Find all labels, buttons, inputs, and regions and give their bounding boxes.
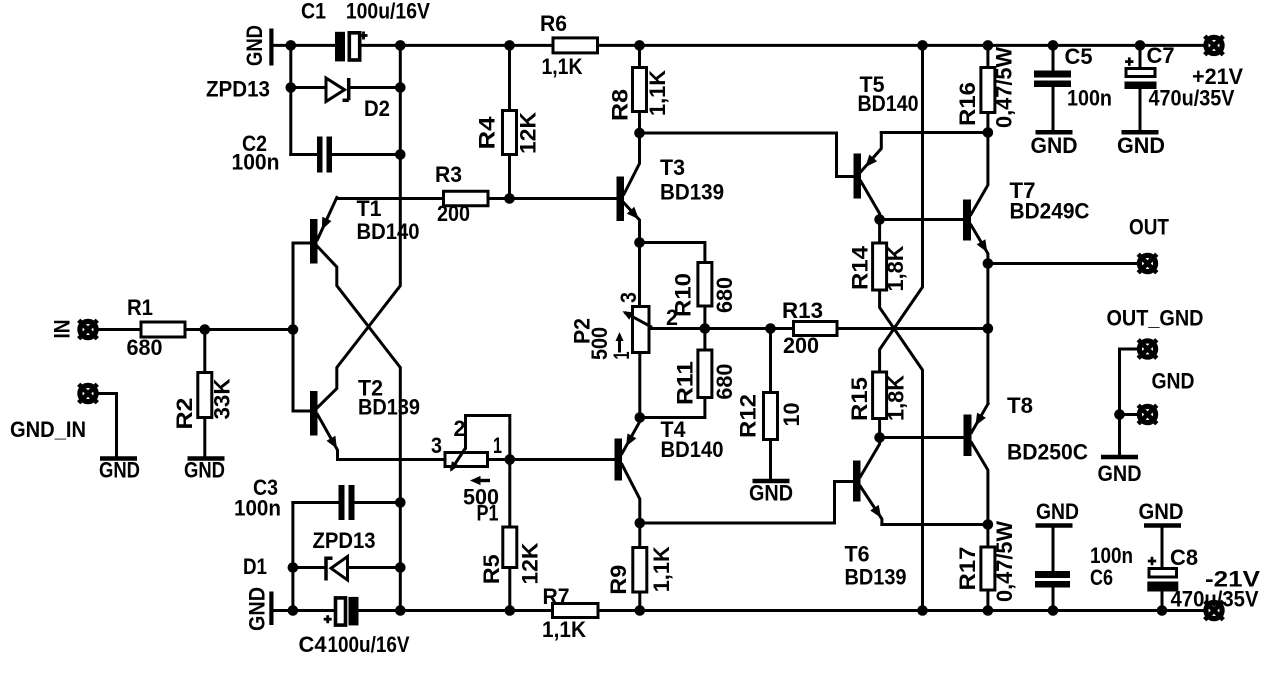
wire [837,327,988,330]
svg-text:100u/16V: 100u/16V [328,632,410,657]
junction [874,214,885,225]
svg-text:680: 680 [712,277,737,313]
wire [291,503,294,611]
junction [288,562,299,573]
svg-text:GND: GND [184,458,225,483]
resistor R3 [444,191,489,206]
svg-text:GND_IN: GND_IN [10,417,86,442]
terminal OUT [1139,255,1155,271]
junction [983,519,994,530]
wire [338,197,444,200]
wire [318,247,401,611]
wire [99,394,117,457]
transistor T3 BD139 [617,177,625,222]
wire [988,262,1137,265]
wire [293,501,339,504]
trimmer P2 500 [638,243,641,307]
svg-text:2: 2 [666,305,678,330]
junction [983,605,994,616]
ground [1144,523,1181,528]
svg-text:R8: R8 [608,89,633,121]
svg-text:0,47/5W: 0,47/5W [992,47,1017,128]
svg-text:100n: 100n [234,496,281,521]
junction [1135,40,1146,51]
wire [274,609,335,612]
svg-text:R11: R11 [672,361,697,405]
terminal GND_IN [80,385,96,401]
svg-text:D2: D2 [364,96,390,121]
svg-text:BD249C: BD249C [1010,199,1090,224]
svg-text:1,8K: 1,8K [883,245,908,291]
svg-text:680: 680 [712,364,737,400]
svg-text:R6: R6 [540,11,567,36]
svg-text:GND: GND [1031,133,1078,158]
wire [649,327,794,330]
svg-text:GND: GND [1036,499,1079,524]
wire [598,609,1204,612]
capacitor C7 [1139,45,1142,68]
wire [880,45,923,372]
svg-text:R16: R16 [955,82,980,126]
capacitor C5 [1052,45,1055,71]
svg-text:GND: GND [99,458,140,483]
svg-text:BD139: BD139 [358,395,420,420]
wire [362,44,554,47]
junction [1157,605,1168,616]
svg-text:GND: GND [1098,461,1142,486]
svg-text:ZPD13: ZPD13 [313,528,376,553]
wire [348,566,401,569]
wire [318,45,401,407]
transistor T4 BD140 [615,439,623,481]
svg-text:C7: C7 [1147,43,1175,68]
svg-text:C1: C1 [301,0,326,24]
ground terminal bar (bottom left) [269,592,273,626]
resistor R4 [503,111,517,155]
wire [293,566,326,569]
transistor T2 BD139 [310,391,318,436]
wire [703,306,706,329]
wire [274,44,336,47]
junction [700,323,711,334]
wire [289,45,292,154]
svg-text:GND: GND [1152,369,1195,394]
resistor R2 [203,330,206,373]
wire [640,243,705,263]
junction [983,323,994,334]
svg-text:BD250C: BD250C [1007,440,1088,465]
junction [504,193,515,204]
svg-text:D1: D1 [243,554,267,579]
wire [99,328,141,331]
resistor R5 [508,460,511,528]
svg-text:C6: C6 [1090,565,1113,590]
svg-text:1,1K: 1,1K [649,546,674,592]
junction [634,237,645,248]
resistor R1 [141,322,185,337]
wire [351,86,401,89]
wire [1120,413,1138,416]
resistor R8 [633,68,647,112]
svg-text:R13: R13 [782,298,823,323]
svg-text:C5: C5 [1065,44,1093,69]
svg-text:R12: R12 [735,394,760,438]
terminal OUT_GND [1139,341,1155,357]
svg-text:GND: GND [1117,133,1165,158]
junction [200,324,211,335]
junction [395,149,406,160]
svg-text:470u/35V: 470u/35V [1171,587,1259,612]
resistor R15 [873,372,887,419]
svg-text:3: 3 [431,433,442,458]
svg-text:R17: R17 [955,547,980,591]
svg-text:10: 10 [779,403,804,427]
wire [598,44,1204,47]
wire [640,398,705,418]
junction [634,128,645,139]
svg-text:BD140: BD140 [357,219,420,244]
svg-text:12K: 12K [518,542,543,584]
ground [1036,130,1073,135]
junction [765,323,776,334]
svg-text:100n: 100n [232,150,280,175]
terminal -21V [1206,602,1222,618]
junction [917,605,928,616]
svg-text:C4: C4 [299,632,328,657]
svg-text:GND: GND [245,587,270,631]
junction [395,497,406,508]
svg-text:470u/35V: 470u/35V [1149,86,1235,111]
svg-text:R2: R2 [172,398,197,430]
svg-text:1: 1 [493,433,502,458]
transistor T5 BD140 [854,154,862,199]
resistor R10 [698,263,712,307]
svg-text:T3: T3 [660,155,685,180]
svg-text:GND: GND [1139,499,1184,524]
wire [880,290,923,611]
terminal +21V [1206,37,1222,53]
svg-text:R4: R4 [475,116,500,150]
svg-text:BD140: BD140 [858,91,919,116]
svg-text:12K: 12K [516,112,541,154]
wire [292,243,295,411]
zener diode D2 ZPD13 [326,78,345,102]
junction [635,518,646,529]
wire [185,328,293,331]
terminal IN [80,321,96,337]
svg-text:200: 200 [783,333,819,358]
wire [355,501,401,504]
svg-text:R7: R7 [543,584,570,609]
capacitor C4 [336,598,346,625]
svg-text:1: 1 [609,352,634,360]
wire [488,197,617,200]
wire [703,329,706,351]
svg-text:BD139: BD139 [660,180,724,205]
svg-text:R5: R5 [479,554,504,584]
junction [395,82,406,93]
junction [874,432,885,443]
junction [504,40,515,51]
svg-text:BD140: BD140 [661,437,724,462]
wire [291,153,317,156]
svg-text:IN: IN [49,320,74,339]
junction [395,40,406,51]
zener diode D1 ZPD13 [324,557,328,581]
junction [288,605,299,616]
svg-text:GND: GND [242,25,267,66]
capacitor C6 [1052,528,1055,572]
svg-text:R1: R1 [127,295,153,320]
trimmer P1 500 [445,453,488,467]
svg-text:P1: P1 [477,501,499,526]
wire [882,523,988,526]
ground [1101,455,1138,460]
junction [635,412,646,423]
svg-text:680: 680 [127,335,163,360]
wire [878,419,881,438]
svg-text:200: 200 [437,201,470,226]
junction [635,605,646,616]
wire [986,264,989,404]
ground [753,479,790,484]
junction [395,562,406,573]
junction [1114,409,1125,420]
svg-text:OUT: OUT [1129,215,1169,240]
ground [188,456,225,461]
svg-text:R3: R3 [435,162,462,187]
resistor R17 [986,525,989,548]
junction [983,40,994,51]
svg-text:1,8K: 1,8K [884,375,909,421]
resistor R14 [878,220,881,244]
svg-text:ZPD13: ZPD13 [206,77,270,102]
ground [100,456,137,461]
resistor R7 [553,604,599,618]
svg-text:2: 2 [454,416,466,441]
svg-text:R15: R15 [847,377,872,421]
junction [634,40,645,51]
junction [505,605,516,616]
junction [286,82,297,93]
junction [983,258,994,269]
ground [1036,523,1073,528]
wire [291,86,325,89]
capacitor C8 [1161,528,1164,569]
svg-text:R14: R14 [848,245,873,290]
svg-text:T8: T8 [1007,393,1033,418]
ground terminal bar (top left) [269,29,273,66]
capacitor C1 [335,32,345,62]
wire [359,609,553,612]
resistor R13 [794,322,838,336]
resistor R16 [986,45,989,67]
junction [917,40,928,51]
svg-text:C8: C8 [1170,545,1198,570]
wire [1120,349,1138,455]
svg-text:100u/16V: 100u/16V [346,0,430,24]
capacitor C3 [339,485,345,520]
svg-text:+21V: +21V [1192,64,1243,89]
junction [983,127,994,138]
resistor R9 [638,523,641,548]
svg-text:1,1K: 1,1K [542,617,586,642]
wire [881,131,988,134]
transistor T1 BD140 [310,219,318,264]
svg-text:33K: 33K [210,378,235,419]
terminal GND (chassis) [1139,406,1155,422]
svg-text:T6: T6 [845,542,870,567]
resistor R12 [769,329,772,393]
transistor T8 BD250C [964,415,972,457]
resistor R6 [553,38,598,53]
transistor T6 BD139 [853,461,861,502]
junction [1048,605,1059,616]
junction [286,40,297,51]
junction [395,605,406,616]
wire [640,133,854,177]
resistor R11 [698,350,712,398]
ground [1122,130,1159,135]
svg-text:BD139: BD139 [845,565,907,590]
junction [505,454,516,465]
junction [288,324,299,335]
svg-text:100n: 100n [1067,86,1112,111]
wire [640,482,853,524]
junction [1048,40,1059,51]
svg-text:0,47/5W: 0,47/5W [992,521,1017,602]
svg-text:R9: R9 [606,565,631,595]
capacitor C2 [317,137,323,173]
svg-text:OUT_GND: OUT_GND [1107,306,1204,331]
wire [332,153,400,156]
svg-text:1,1K: 1,1K [645,70,670,116]
svg-text:GND: GND [749,481,793,506]
transistor T7 BD249C [963,200,971,241]
svg-text:1,1K: 1,1K [542,54,583,79]
svg-text:3: 3 [616,292,641,303]
